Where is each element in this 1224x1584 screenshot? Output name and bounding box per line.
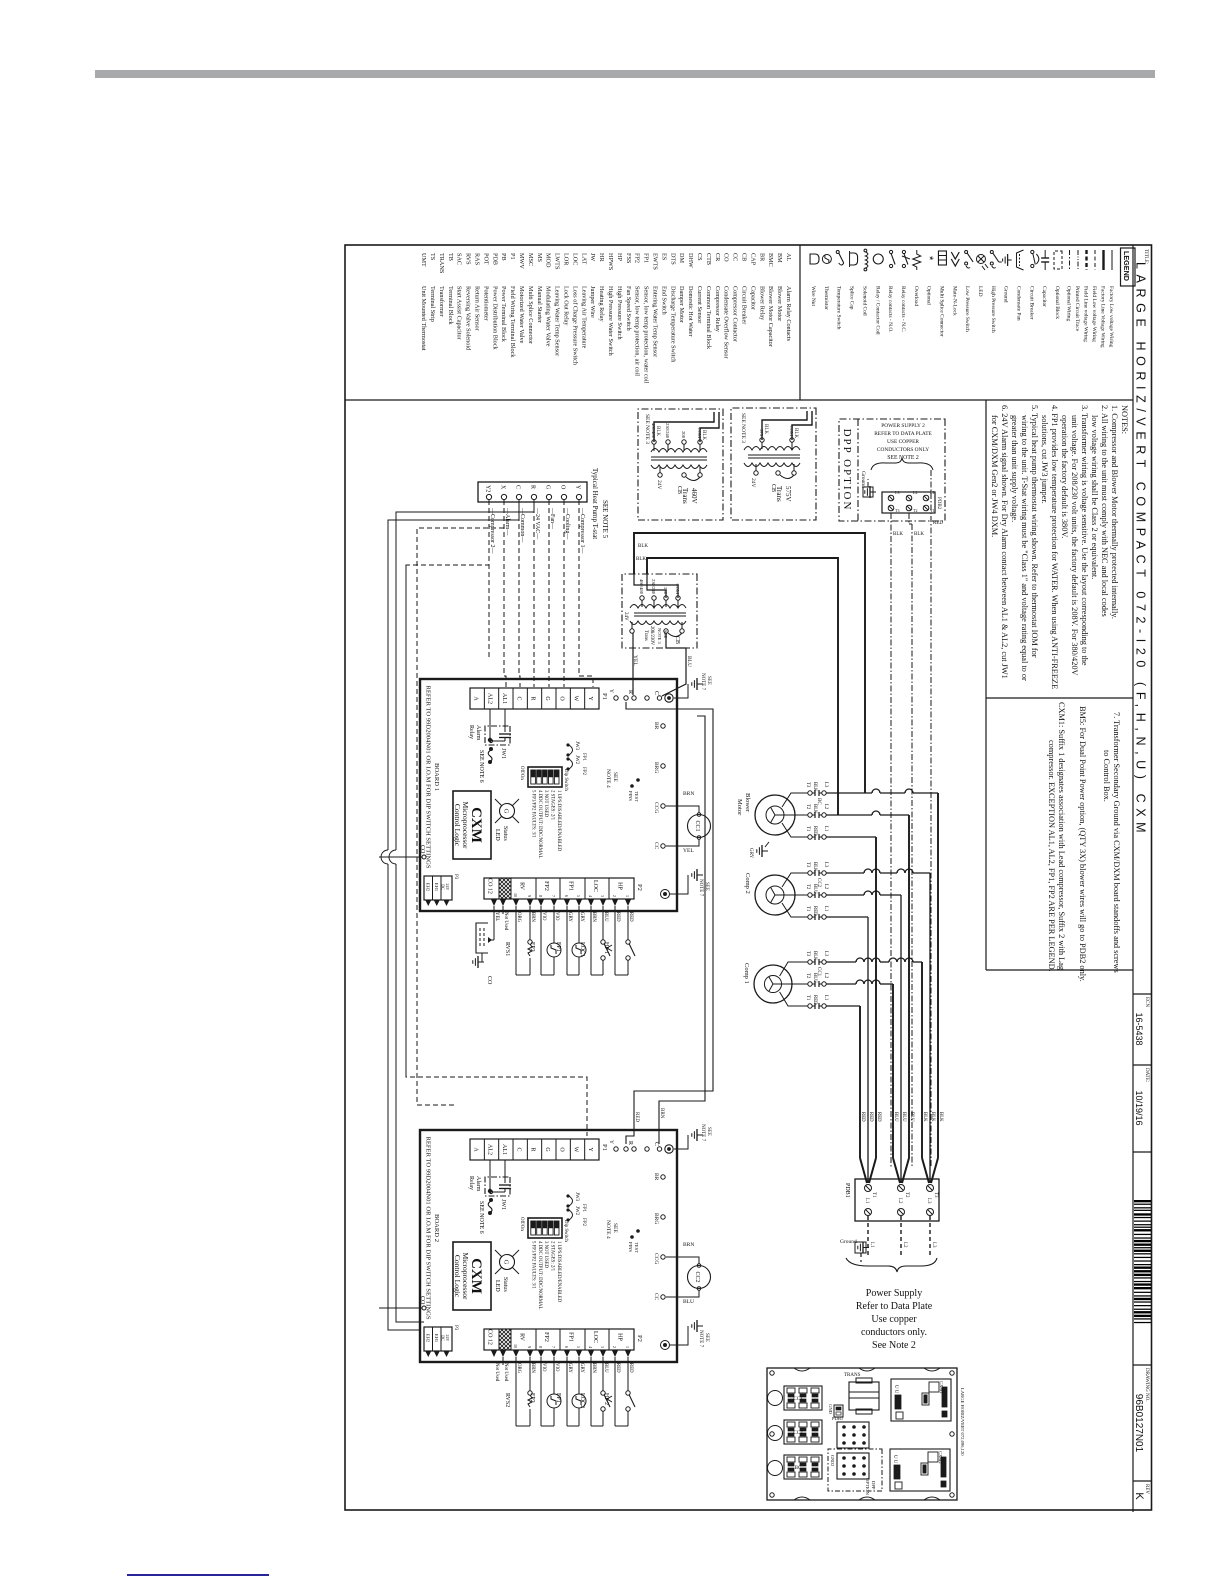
EH interconnect wire 1 — [396, 502, 534, 850]
ground at PDB1 — [855, 1242, 866, 1253]
svg-text:4: 4 — [588, 1346, 593, 1348]
svg-text:Loss of Charge Pressure Switch: Loss of Charge Pressure Switch — [571, 286, 578, 366]
svg-text:GND: GND — [828, 1404, 833, 1415]
svg-text:FP2: FP2 — [543, 881, 549, 891]
Comp 1 wire 1 — [780, 962, 808, 976]
svg-text:RED: RED — [812, 906, 817, 916]
svg-text:T2: T2 — [805, 804, 810, 810]
grey header rule of the page — [95, 70, 1155, 78]
svg-text:conductors only.: conductors only. — [861, 1327, 927, 1338]
legend box — [345, 399, 1133, 401]
svg-text:RED: RED — [628, 912, 633, 922]
svg-text:Y: Y — [608, 689, 614, 693]
svg-text:High Pressure Water Switch: High Pressure Water Switch — [607, 286, 614, 357]
svg-text:L1: L1 — [823, 906, 828, 912]
DPP brace — [871, 458, 933, 470]
svg-text:24V: 24V — [750, 478, 756, 488]
PDB1 block — [855, 1179, 939, 1221]
svg-text:—Alarm—: —Alarm— — [504, 507, 510, 536]
svg-text:6. 24V Alarm signal shown. For: 6. 24V Alarm signal shown. For Dry Alarm… — [1000, 405, 1009, 679]
svg-text:Sensor, low temp protection, a: Sensor, low temp protection, air coil — [634, 286, 641, 376]
DPP L3 dash-dot feed — [890, 513, 892, 1168]
svg-text:4. FP1 provides low temperatur: 4. FP1 provides low temperature protecti… — [1050, 405, 1059, 689]
svg-text:CC2: CC2 — [694, 1271, 700, 1282]
board 1 P1 connector — [470, 688, 599, 709]
board 2 status LED — [500, 1255, 515, 1270]
svg-text:AL1: AL1 — [501, 1144, 507, 1155]
svg-text:Leaving Air Temperature: Leaving Air Temperature — [580, 286, 587, 349]
svg-text:RV: RV — [519, 1333, 525, 1342]
svg-text:BRN: BRN — [530, 1363, 535, 1373]
svg-text:Capacitor: Capacitor — [1041, 286, 1047, 307]
svg-text:T1: T1 — [805, 906, 810, 912]
svg-text:Use copper: Use copper — [871, 1314, 917, 1325]
svg-text:Lock Out Relay: Lock Out Relay — [563, 286, 570, 326]
svg-text:CXM1: Suffix 1 designates asso: CXM1: Suffix 1 designates association wi… — [1057, 702, 1066, 970]
svg-text:REFER TO 99D2004N01 OR I.O.M F: REFER TO 99D2004N01 OR I.O.M FOR DIP SWI… — [425, 685, 432, 868]
svg-text:LAT: LAT — [580, 253, 587, 265]
svg-text:BR: BR — [653, 722, 659, 730]
svg-text:RED: RED — [812, 826, 817, 836]
svg-text:1. Compressor and Blower Motor: 1. Compressor and Blower Motor thermally… — [1110, 405, 1119, 619]
svg-text:Capacitor: Capacitor — [749, 286, 756, 310]
svg-text:Compressor Relay: Compressor Relay — [714, 286, 721, 333]
svg-text:Wire Nut: Wire Nut — [810, 286, 816, 306]
svg-text:Blower: Blower — [744, 793, 751, 813]
svg-text:460V: 460V — [690, 488, 698, 504]
svg-text:K: K — [1133, 1492, 1145, 1500]
t-stat dashed wire Y2 — [488, 500, 490, 660]
svg-text:W: W — [573, 696, 579, 702]
svg-text:BLK: BLK — [812, 862, 817, 872]
board 2 P3 strip — [424, 1327, 452, 1351]
svg-text:BLU: BLU — [901, 1112, 906, 1122]
svg-text:G: G — [544, 696, 550, 701]
svg-text:Blower Motor Capacitor: Blower Motor Capacitor — [767, 286, 774, 347]
svg-text:LARGE HORIZ/VERT COMPACT 072-I: LARGE HORIZ/VERT COMPACT 072-I20 (F,H,N,… — [1134, 262, 1148, 838]
svg-text:BLK: BLK — [793, 428, 798, 438]
460V transformer option box — [638, 409, 723, 520]
svg-text:4: 4 — [588, 895, 593, 897]
svg-text:Solenoid Coil: Solenoid Coil — [861, 286, 867, 316]
layout GND block — [834, 1405, 843, 1417]
svg-text:—Fan—: —Fan— — [549, 507, 555, 530]
svg-text:EH2: EH2 — [425, 883, 430, 892]
layout DPP option dashed box — [828, 1449, 882, 1491]
svg-text:CC1: CC1 — [816, 967, 821, 977]
svg-text:NOTE 7: NOTE 7 — [700, 673, 705, 691]
svg-text:Domestic Hot Water: Domestic Hot Water — [687, 286, 694, 337]
svg-text:BLU: BLU — [603, 912, 608, 922]
svg-text:Off/On: Off/On — [519, 766, 524, 780]
svg-text:2: 2 — [612, 895, 617, 897]
svg-text:LOC: LOC — [592, 1331, 598, 1343]
svg-text:RVS2: RVS2 — [504, 1393, 510, 1407]
svg-text:DHW: DHW — [687, 253, 694, 268]
board 2 P1 connector — [470, 1139, 599, 1160]
svg-text:DPP OPTION: DPP OPTION — [841, 429, 853, 512]
supply brace — [846, 1258, 937, 1272]
DPP L2 dash-dot feed — [908, 513, 910, 524]
board 1 small terminals Y R C — [614, 696, 618, 700]
svg-text:PINS: PINS — [628, 1242, 633, 1252]
svg-text:LED: LED — [494, 1280, 500, 1292]
575V trans BLK leads — [792, 411, 812, 440]
svg-text:Not Used: Not Used — [503, 912, 508, 931]
dashed common wire bottom — [405, 565, 407, 1077]
svg-text:T1: T1 — [805, 826, 810, 832]
svg-text:TS: TS — [429, 253, 436, 261]
svg-text:Blower Relay: Blower Relay — [758, 286, 765, 321]
svg-text:Thermistor: Thermistor — [823, 286, 829, 310]
svg-text:O: O — [558, 696, 564, 701]
control box layout outline — [767, 1368, 957, 1500]
svg-text:MS: MS — [536, 253, 543, 263]
svg-text:High Pressure Switch: High Pressure Switch — [616, 286, 623, 341]
svg-text:5 FP1/FP2 FAULTS: 3/1: 5 FP1/FP2 FAULTS: 3/1 — [530, 1241, 535, 1289]
svg-text:Overload: Overload — [913, 286, 919, 306]
t-stat dashed wire O — [563, 500, 565, 660]
svg-text:Ground: Ground — [1003, 286, 1009, 303]
svg-text:EH1: EH1 — [434, 1334, 439, 1343]
component LOC1 — [602, 906, 604, 940]
svg-text:Dip Switch: Dip Switch — [563, 1220, 568, 1242]
svg-text:L3: L3 — [895, 490, 899, 495]
svg-text:A: A — [472, 696, 478, 701]
svg-text:greater than unit supply volta: greater than unit supply voltage. — [1010, 415, 1019, 522]
board 1 CXM logo box — [453, 791, 491, 859]
svg-text:AL2: AL2 — [487, 1144, 493, 1155]
svg-text:BLK: BLK — [638, 544, 648, 549]
board 1 status LED — [500, 804, 515, 819]
svg-text:YEL: YEL — [494, 912, 499, 921]
svg-text:L1: L1 — [823, 826, 828, 832]
svg-text:REFER TO 99D2004N01 OR I.O.M F: REFER TO 99D2004N01 OR I.O.M FOR DIP SWI… — [425, 1136, 432, 1319]
svg-text:P1: P1 — [509, 253, 516, 260]
svg-text:ECN: ECN — [1144, 997, 1149, 1007]
board 1 CO terminal — [422, 855, 426, 859]
svg-text:CAP: CAP — [749, 253, 756, 266]
svg-text:GRY: GRY — [567, 1363, 572, 1373]
svg-text:3: 3 — [600, 895, 605, 897]
svg-text:LED: LED — [494, 829, 500, 841]
board 2 corner ground terminal right — [661, 1341, 670, 1350]
svg-text:R: R — [627, 1141, 633, 1145]
svg-text:BLK: BLK — [938, 1112, 943, 1122]
svg-text:P1: P1 — [601, 693, 608, 700]
svg-text:CXM2: CXM2 — [938, 1451, 943, 1464]
Comp 2 wire 1 — [782, 873, 808, 887]
PDB1 dashed supply line 1 — [900, 1216, 902, 1258]
svg-text:BLK: BLK — [655, 426, 660, 436]
svg-text:T3: T3 — [805, 862, 810, 868]
svg-text:L3: L3 — [823, 782, 828, 788]
svg-text:SEE NOTE 6: SEE NOTE 6 — [478, 1201, 484, 1234]
svg-text:BRN: BRN — [683, 791, 694, 797]
svg-text:BRG: BRG — [653, 1213, 659, 1224]
svg-text:L2: L2 — [823, 884, 828, 890]
svg-text:CS: CS — [696, 253, 703, 261]
svg-text:Status: Status — [502, 826, 508, 841]
title bar — [1132, 245, 1134, 1512]
svg-text:JW3: JW3 — [574, 741, 579, 751]
contactor BC block — [784, 1455, 822, 1479]
legend header — [1121, 248, 1136, 286]
svg-text:P2: P2 — [636, 1335, 643, 1342]
svg-text:LOR: LOR — [563, 253, 570, 266]
svg-text:10/19/16: 10/19/16 — [1134, 1090, 1144, 1125]
svg-text:T2: T2 — [913, 508, 917, 513]
svg-text:DPP: DPP — [871, 1481, 876, 1490]
board 1 P3 strip — [424, 876, 452, 900]
svg-text:Dip Switch: Dip Switch — [563, 769, 568, 791]
svg-text:Multi Splice Connector: Multi Splice Connector — [938, 286, 944, 337]
board 2 coil circle CC2 — [688, 1266, 711, 1289]
YEL secondary wire to R — [632, 633, 634, 695]
svg-text:—Compressor 1—: —Compressor 1— — [579, 507, 585, 554]
svg-text:GRY: GRY — [579, 912, 584, 922]
svg-text:BC: BC — [816, 798, 821, 805]
svg-text:Damper Motor: Damper Motor — [678, 286, 685, 323]
svg-text:SEE: SEE — [706, 676, 711, 685]
board 2 corner ground terminal left — [665, 1145, 673, 1153]
svg-text:Motor: Motor — [736, 799, 743, 816]
svg-text:BLK: BLK — [893, 532, 903, 537]
svg-text:24V: 24V — [623, 612, 628, 621]
svg-text:Y2: Y2 — [485, 485, 491, 492]
svg-text:BLK: BLK — [922, 1112, 927, 1122]
CO drop wires — [379, 856, 422, 858]
svg-text:Not Used: Not Used — [503, 1363, 508, 1382]
svg-text:5: 5 — [576, 895, 581, 897]
svg-text:Blower Motor: Blower Motor — [776, 286, 783, 321]
board 2 test pins — [636, 1229, 640, 1233]
24V feed wires to board 2 — [626, 702, 713, 1144]
Comp 2 wire 2 — [782, 894, 808, 896]
svg-text:TEST: TEST — [634, 791, 639, 802]
svg-text:JW: JW — [589, 253, 596, 261]
svg-text:2. All wiring to the unit must: 2. All wiring to the unit must comply wi… — [1100, 405, 1109, 617]
svg-text:L2: L2 — [823, 804, 828, 810]
svg-text:X: X — [500, 485, 506, 490]
svg-text:575V: 575V — [784, 486, 792, 502]
svg-text:RED: RED — [628, 1363, 633, 1373]
svg-text:T2: T2 — [805, 973, 810, 979]
svg-text:JW1: JW1 — [500, 748, 506, 759]
svg-text:CC2: CC2 — [793, 1431, 803, 1436]
svg-text:VIO: VIO — [554, 1363, 559, 1372]
svg-text:DTS: DTS — [669, 253, 676, 265]
svg-text:GRY: GRY — [567, 912, 572, 922]
board 1 corner ground terminal left — [665, 694, 673, 702]
svg-text:CB: CB — [676, 486, 682, 494]
Blower wire 2 — [782, 814, 808, 816]
svg-text:RED: RED — [933, 521, 943, 526]
t-stat terminal box — [478, 482, 587, 502]
PDB1 dashed supply line 0 — [929, 1216, 931, 1258]
svg-text:HR: HR — [598, 253, 605, 262]
svg-text:BRN: BRN — [683, 1242, 694, 1248]
svg-text:Control Logic: Control Logic — [453, 1255, 462, 1298]
layout corner screws — [950, 1371, 954, 1375]
svg-text:L3: L3 — [926, 1198, 931, 1204]
svg-text:RVS: RVS — [465, 253, 472, 265]
svg-text:FP1: FP1 — [568, 881, 574, 891]
svg-text:RAS: RAS — [474, 253, 481, 266]
svg-text:Potentiometer: Potentiometer — [482, 286, 489, 321]
CXM board 2 outline — [420, 1130, 677, 1362]
board 1 top terminals — [661, 724, 665, 728]
svg-text:GRY: GRY — [579, 1363, 584, 1373]
575V transformer option box — [731, 408, 816, 520]
svg-text:R: R — [530, 1147, 536, 1151]
svg-text:SEE: SEE — [612, 772, 618, 782]
svg-text:SEE NOTE 3: SEE NOTE 3 — [740, 413, 746, 443]
svg-text:L2: L2 — [897, 1198, 902, 1204]
svg-text:CB: CB — [770, 484, 776, 492]
svg-text:FP2: FP2 — [543, 1332, 549, 1342]
navy footer link line — [127, 1574, 269, 1576]
svg-text:1 UPS:DISABLED/ENABLED: 1 UPS:DISABLED/ENABLED — [556, 1241, 561, 1303]
svg-text:YEL: YEL — [632, 655, 638, 666]
svg-text:to Control Box.: to Control Box. — [1102, 750, 1111, 802]
svg-text:8: 8 — [538, 1346, 543, 1348]
svg-text:JW2: JW2 — [574, 755, 579, 765]
svg-text:G: G — [545, 485, 551, 490]
svg-text:BLK: BLK — [636, 557, 646, 562]
svg-text:FP1: FP1 — [643, 253, 650, 263]
svg-text:PDB1: PDB1 — [832, 1416, 844, 1421]
Comp 1 — [754, 965, 792, 1003]
svg-text:460/480: 460/480 — [639, 579, 644, 595]
svg-text:FP1: FP1 — [581, 753, 586, 762]
svg-text:OPTION: OPTION — [865, 1478, 870, 1496]
board 2 small terminals Y R C — [614, 1147, 618, 1151]
svg-text:BRG: BRG — [653, 762, 659, 773]
svg-text:End Switch: End Switch — [660, 286, 667, 316]
svg-text:FP2: FP2 — [581, 1218, 586, 1227]
svg-text:BR: BR — [758, 253, 765, 262]
svg-text:BM: BM — [776, 253, 783, 263]
barcode — [1134, 1200, 1151, 1202]
contactor CC2 block — [784, 1420, 822, 1444]
PDB2 terminal block — [882, 492, 935, 513]
svg-text:TRANS: TRANS — [844, 1373, 861, 1378]
svg-text:CTB: CTB — [705, 253, 712, 265]
svg-text:T2: T2 — [904, 1192, 909, 1198]
board 2 CXM logo box — [453, 1242, 491, 1310]
svg-text:P3: P3 — [453, 1325, 458, 1331]
svg-text:CC1: CC1 — [793, 1397, 803, 1402]
svg-text:Alarm Relay Contacts: Alarm Relay Contacts — [785, 286, 792, 342]
board 1 corner ground terminal right — [661, 890, 670, 899]
svg-text:P1: P1 — [601, 1144, 608, 1151]
pin11 stub — [502, 906, 504, 914]
svg-text:C: C — [515, 485, 521, 489]
svg-text:Terminal Strip: Terminal Strip — [429, 286, 436, 322]
svg-text:10: 10 — [513, 1344, 518, 1348]
svg-text:MWV: MWV — [518, 253, 525, 269]
sheet frame — [345, 245, 1152, 1510]
svg-text:Typical Heat Pump T-stat: Typical Heat Pump T-stat — [591, 468, 599, 539]
svg-text:BLK: BLK — [763, 424, 768, 434]
Comp 1 wire 3 — [780, 992, 808, 1006]
svg-text:Alarm: Alarm — [475, 725, 481, 741]
svg-text:1 UPS:DISABLED/ENABLED: 1 UPS:DISABLED/ENABLED — [556, 790, 561, 852]
svg-text:Transformer: Transformer — [438, 286, 445, 317]
t-stat dashed wire R — [533, 500, 535, 660]
svg-text:Ground: Ground — [840, 1239, 857, 1245]
svg-text:CC: CC — [653, 1293, 659, 1301]
component FP2 — [553, 1357, 555, 1394]
svg-text:Heating Relay: Heating Relay — [598, 286, 605, 322]
svg-text:VIO: VIO — [554, 912, 559, 921]
svg-text:unit voltage. For 208/230 volt: unit voltage. For 208/230 volt units, th… — [1070, 415, 1079, 676]
svg-text:—Cooling—: —Cooling— — [564, 507, 570, 540]
Y2 long dashed route to board2 — [406, 500, 587, 1136]
svg-text:low voltage wiring shall be Cl: low voltage wiring shall be Class 2 or e… — [1090, 415, 1099, 579]
svg-text:CC1: CC1 — [694, 820, 700, 831]
Comp 2 wire 3 — [782, 903, 808, 917]
svg-text:MSC: MSC — [527, 253, 534, 266]
layout PDB1 block — [837, 1422, 869, 1448]
board 2 P2 connector — [484, 1329, 634, 1350]
svg-text:2: 2 — [612, 1346, 617, 1348]
funnels into PDB1 — [931, 1158, 938, 1183]
svg-text:G: G — [544, 1147, 550, 1152]
svg-text:5 FP1/FP2 FAULTS: 3/1: 5 FP1/FP2 FAULTS: 3/1 — [530, 790, 535, 838]
208/230V transformer (active) — [622, 574, 697, 648]
svg-text:—Compressor 2—: —Compressor 2— — [489, 507, 495, 554]
svg-text:FP1: FP1 — [581, 1204, 586, 1213]
svg-text:TRANS: TRANS — [438, 253, 445, 274]
svg-text:Y: Y — [587, 1147, 593, 1152]
svg-text:PDB: PDB — [491, 253, 498, 265]
svg-text:Factory Low voltage Wiring: Factory Low voltage Wiring — [1108, 286, 1114, 348]
svg-text:PDB2: PDB2 — [936, 497, 941, 510]
svg-text:—24 VAC—: —24 VAC— — [534, 507, 540, 540]
svg-text:7: 7 — [551, 895, 556, 897]
svg-text:Refer to Data Plate: Refer to Data Plate — [856, 1301, 933, 1312]
svg-text:LEGEND: LEGEND — [1122, 251, 1131, 281]
board 2 alarm relay — [504, 1160, 506, 1177]
Blower wire 3 — [782, 823, 808, 837]
component HP 1 — [627, 906, 629, 940]
svg-text:G: G — [503, 809, 510, 814]
svg-text:W: W — [573, 1147, 579, 1153]
svg-text:JW1: JW1 — [500, 1199, 506, 1210]
svg-text:L1: L1 — [823, 995, 828, 1001]
t-stat dashed wire G — [548, 500, 550, 660]
svg-text:HP: HP — [617, 1333, 623, 1341]
svg-text:Leaving Water Temp Sensor: Leaving Water Temp Sensor — [554, 286, 561, 356]
svg-text:Optional Wiring: Optional Wiring — [1066, 286, 1072, 321]
svg-text:Unit Mounted Thermostat: Unit Mounted Thermostat — [420, 286, 427, 351]
board 1 test pins — [636, 778, 640, 782]
svg-text:CC: CC — [653, 842, 659, 850]
Comp 2 — [755, 875, 795, 915]
power bundle wires to PDB1 — [937, 793, 939, 1158]
svg-text:T3: T3 — [895, 508, 899, 513]
BLU secondary wire to C — [662, 633, 686, 696]
svg-text:Relay: Relay — [468, 1176, 474, 1190]
svg-text:NOTES:: NOTES: — [1120, 405, 1129, 434]
DPP ground — [863, 487, 873, 497]
layout TRANS — [849, 1382, 879, 1410]
svg-text:SEE: SEE — [704, 1333, 709, 1342]
svg-text:4 DDC OUTPUT: DDC/NORMAL: 4 DDC OUTPUT: DDC/NORMAL — [537, 790, 542, 858]
svg-text:T1: T1 — [805, 995, 810, 1001]
